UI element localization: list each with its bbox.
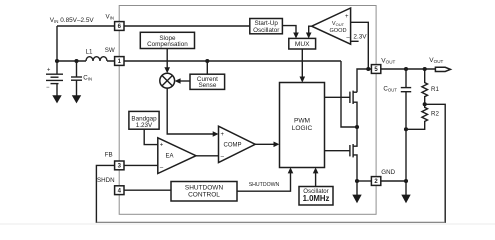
arrow into MUX from startup bbox=[293, 33, 299, 39]
wire battery stem bbox=[56, 84, 58, 96]
svg-text:+: + bbox=[221, 132, 225, 138]
resistor R2 bbox=[406, 104, 428, 129]
node gnd left bbox=[355, 179, 359, 183]
wire SW rail left bbox=[57, 60, 86, 62]
svg-text:VOUT: VOUT bbox=[381, 58, 395, 65]
svg-text:SHUTDOWN: SHUTDOWN bbox=[249, 182, 280, 188]
svg-text:1.0MHz: 1.0MHz bbox=[303, 194, 330, 203]
wire gnd rail internal bbox=[357, 180, 372, 182]
wire vout good to mux bbox=[309, 26, 312, 36]
svg-text:GOOD: GOOD bbox=[329, 28, 346, 34]
svg-text:Compensation: Compensation bbox=[147, 41, 188, 48]
svg-text:CONTROL: CONTROL bbox=[188, 192, 220, 199]
wire pin4 to shutdown control bbox=[124, 189, 171, 191]
wire feedback loop verticals bbox=[425, 104, 446, 223]
wire gnd stem left bbox=[356, 181, 358, 196]
arrow into COMP plus bbox=[213, 131, 219, 137]
block MUX bbox=[289, 38, 316, 49]
resistor R1 bbox=[422, 69, 428, 104]
arrow into PWM bottom osc bbox=[313, 167, 319, 173]
svg-text:MUX: MUX bbox=[295, 41, 310, 48]
pin boxes bbox=[115, 22, 381, 195]
wire COMP to PWM bbox=[255, 143, 276, 145]
svg-text:VIN 0.85V–2.5V: VIN 0.85V–2.5V bbox=[50, 17, 95, 24]
transistor Q1 pmos gate wire bbox=[325, 96, 350, 98]
svg-text:R2: R2 bbox=[431, 111, 439, 118]
arrow into multiplier right bbox=[175, 78, 181, 84]
svg-text:Sense: Sense bbox=[198, 82, 216, 89]
wire SW rail to logic bbox=[107, 60, 341, 62]
op-amp VOUT GOOD comparator bbox=[312, 8, 351, 44]
wire slope comp to multiplier bbox=[166, 49, 168, 71]
wire current sense to multiplier bbox=[179, 80, 190, 82]
terminal VOUT bbox=[435, 67, 450, 71]
wire current sense tap bbox=[206, 61, 208, 74]
page rule bottom bbox=[0, 223, 495, 225]
svg-text:VOUT: VOUT bbox=[429, 57, 443, 64]
node r1 top bbox=[423, 67, 427, 71]
wire gnd stem right bbox=[405, 181, 407, 196]
svg-text:2.3V: 2.3V bbox=[353, 33, 367, 40]
svg-text:VIN: VIN bbox=[106, 13, 114, 20]
pin 6 VIN bbox=[115, 22, 124, 31]
pin 3 FB bbox=[115, 161, 124, 170]
op-amp EA bbox=[158, 138, 196, 174]
svg-text:COMP: COMP bbox=[224, 142, 242, 148]
svg-text:COUT: COUT bbox=[383, 85, 397, 92]
wire pin5 to pmos drain bbox=[357, 69, 372, 92]
arrow into PWM top bbox=[300, 77, 306, 83]
node VIN-battery bbox=[55, 59, 59, 63]
multiplier X bbox=[162, 76, 172, 86]
arrow into multiplier top bbox=[164, 67, 170, 73]
functional blocks bbox=[129, 8, 451, 205]
node current sense tap bbox=[205, 59, 209, 63]
pin 1 SW bbox=[115, 57, 124, 66]
wire pin3 to EA bbox=[124, 164, 158, 166]
capacitor COUT bbox=[405, 69, 407, 88]
svg-text:SW: SW bbox=[105, 47, 115, 54]
svg-text:R1: R1 bbox=[431, 86, 439, 93]
svg-text:−: − bbox=[46, 85, 50, 91]
wire bandgap to EA bbox=[144, 129, 158, 144]
node switch bbox=[355, 125, 359, 129]
arrow into PWM bottom shutdown bbox=[288, 167, 294, 173]
ground battery bbox=[52, 95, 61, 103]
wire startup osc to mux bbox=[282, 26, 296, 36]
transistor Q1 pmos body bbox=[349, 92, 351, 103]
wire SW vertical to switch node bbox=[341, 61, 357, 127]
block oscillator bbox=[299, 187, 333, 206]
arrowheads bbox=[52, 33, 410, 204]
ground right bbox=[401, 195, 410, 204]
block startup oscillator bbox=[250, 19, 283, 34]
wire vout good plus sense bbox=[351, 22, 369, 69]
wire shutdown control to pwm bbox=[237, 171, 291, 191]
pin 2 GND bbox=[371, 177, 380, 186]
svg-text:LOGIC: LOGIC bbox=[292, 125, 313, 132]
svg-text:FB: FB bbox=[105, 151, 113, 158]
svg-text:GND: GND bbox=[381, 169, 395, 176]
inductor L1 bbox=[86, 57, 107, 61]
svg-text:Oscillator: Oscillator bbox=[253, 27, 279, 34]
node CIN tap bbox=[74, 59, 78, 63]
svg-text:L1: L1 bbox=[86, 48, 93, 55]
pin 5 VOUT bbox=[371, 65, 380, 74]
block current sense bbox=[190, 74, 225, 89]
wire VIN rail bbox=[57, 25, 252, 27]
node cout top bbox=[404, 67, 408, 71]
arrow into MUX from vout good bbox=[306, 33, 312, 39]
block bandgap bbox=[129, 111, 159, 129]
node gnd cout bbox=[404, 179, 408, 183]
svg-text:1.23V: 1.23V bbox=[136, 122, 153, 129]
wire battery drop bbox=[56, 26, 58, 74]
svg-text:SHDN: SHDN bbox=[97, 177, 115, 184]
block PWM logic bbox=[280, 83, 325, 168]
wire multiplier to comp bbox=[167, 88, 215, 134]
wire 2.3V ref stub bbox=[351, 40, 359, 42]
svg-text:+: + bbox=[160, 143, 164, 149]
block slope compensation bbox=[140, 32, 194, 48]
wire feedback loop bottom rail bbox=[96, 221, 445, 223]
svg-text:SHUTDOWN: SHUTDOWN bbox=[185, 184, 224, 191]
wire oscillator to pwm bbox=[315, 171, 317, 187]
IC outer border bbox=[119, 6, 376, 215]
node fb divider bbox=[423, 102, 427, 106]
multiplier bbox=[160, 73, 175, 88]
ground left bbox=[352, 195, 361, 204]
wire mux to pwm bbox=[301, 49, 303, 80]
svg-text:+: + bbox=[345, 14, 349, 20]
block shutdown control bbox=[171, 182, 237, 202]
pin 4 SHDN bbox=[115, 186, 124, 195]
wire EA to COMP bbox=[196, 155, 219, 157]
svg-text:CIN: CIN bbox=[83, 75, 92, 82]
transistor Q2 nmos body bbox=[349, 145, 351, 156]
node r2 bottom bbox=[404, 127, 408, 131]
capacitor CIN bbox=[76, 61, 78, 77]
arrow into PWM left bbox=[274, 142, 280, 148]
wire vout rail external bbox=[381, 68, 436, 70]
svg-text:PWM: PWM bbox=[294, 117, 310, 124]
svg-text:VOUT: VOUT bbox=[332, 21, 345, 27]
svg-text:+: + bbox=[47, 68, 51, 74]
battery V1 plates bbox=[46, 73, 63, 75]
transistor Q2 nmos gate wire bbox=[325, 150, 350, 152]
op-amp COMP bbox=[219, 126, 256, 162]
node vout sense bbox=[366, 67, 370, 71]
wire gnd rail external bbox=[381, 180, 406, 182]
ground CIN bbox=[72, 95, 81, 103]
svg-text:EA: EA bbox=[165, 154, 173, 160]
